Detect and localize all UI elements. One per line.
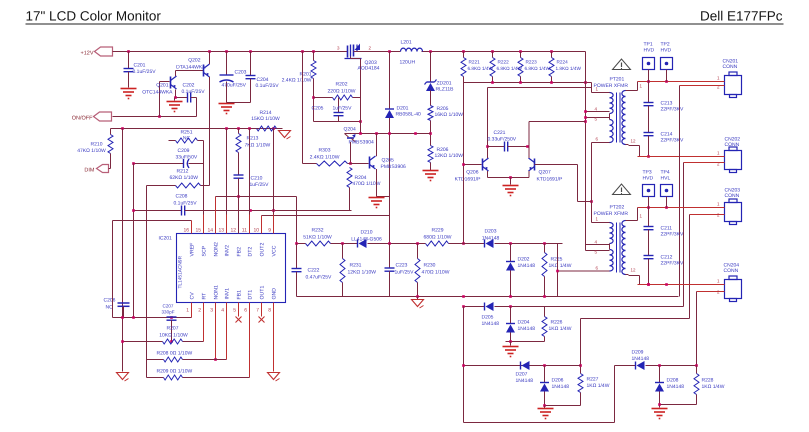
svg-text:1.8KΩ 1/4W: 1.8KΩ 1/4W xyxy=(556,66,582,71)
svg-text:R221: R221 xyxy=(469,60,481,65)
wire row365 right xyxy=(615,364,698,367)
wire Q202 collector xyxy=(209,77,211,186)
diode D203 xyxy=(482,229,500,249)
svg-text:Q207: Q207 xyxy=(539,170,551,176)
resistor R226 xyxy=(542,307,572,342)
resistor R208 xyxy=(147,351,227,363)
pin 2 xyxy=(680,85,725,90)
svg-text:22PF/3KV: 22PF/3KV xyxy=(661,232,684,238)
svg-text:VREF: VREF xyxy=(190,243,196,257)
svg-text:0.1uF/25V: 0.1uF/25V xyxy=(182,89,206,95)
ground xyxy=(503,186,519,196)
wire HV row3 xyxy=(638,206,724,209)
svg-text:KTD1691/P: KTD1691/P xyxy=(455,177,482,183)
svg-text:1N4148: 1N4148 xyxy=(482,236,500,242)
wire tap column xyxy=(585,52,587,251)
warning triangle xyxy=(594,59,631,89)
pin 1 xyxy=(707,151,725,157)
wire ON/OFF row xyxy=(113,115,197,118)
svg-text:1N4148: 1N4148 xyxy=(516,378,534,384)
svg-text:Q204: Q204 xyxy=(344,127,356,133)
connector DIM xyxy=(84,165,110,174)
ground arrow xyxy=(268,373,280,382)
transistor Q201 xyxy=(142,76,176,96)
wire PT202 pin6 xyxy=(558,266,607,272)
capacitor C205 xyxy=(312,98,353,122)
wire pin2 RT xyxy=(121,303,203,343)
svg-text:0.1uF/25V: 0.1uF/25V xyxy=(256,83,280,89)
wire pin3 NON1 xyxy=(214,303,217,361)
svg-text:INV2: INV2 xyxy=(225,245,231,257)
svg-text:0.33uF/250V: 0.33uF/250V xyxy=(488,136,517,142)
capacitor C223 xyxy=(385,244,415,297)
svg-text:R231: R231 xyxy=(350,263,362,269)
svg-text:0.47uF/25V: 0.47uF/25V xyxy=(306,275,333,281)
connector ON/OFF xyxy=(72,112,112,122)
svg-text:R224: R224 xyxy=(557,60,569,65)
svg-text:12KΩ 1/10W: 12KΩ 1/10W xyxy=(348,270,377,276)
resistor R225 xyxy=(542,244,572,297)
svg-text:22PF/3KV: 22PF/3KV xyxy=(661,107,684,113)
wire CN204 pin2 drop xyxy=(696,292,698,366)
resistor R213 xyxy=(236,129,270,153)
resistor R229 xyxy=(424,228,452,247)
connector CN203 xyxy=(725,188,742,225)
svg-text:680Ω 1/10W: 680Ω 1/10W xyxy=(424,235,452,241)
svg-text:1N4148: 1N4148 xyxy=(518,263,536,269)
svg-text:D210: D210 xyxy=(361,230,373,236)
resistor R251 xyxy=(169,130,204,164)
wire col B xyxy=(133,164,135,318)
ic IC201 box xyxy=(159,234,286,303)
svg-text:TL1451ACN9R: TL1451ACN9R xyxy=(178,255,184,288)
wire pin9 VCC xyxy=(273,129,275,234)
svg-text:7: 7 xyxy=(256,308,259,314)
pin 5 xyxy=(595,117,598,122)
capacitor C210 xyxy=(234,153,270,234)
resistor R303 xyxy=(310,148,348,167)
svg-text:1KΩ 1/4W: 1KΩ 1/4W xyxy=(549,263,572,269)
wire pin7 OUT1 nc xyxy=(259,303,265,323)
connector CN202 xyxy=(725,137,742,173)
wire R212 row xyxy=(147,169,210,189)
connector +12V xyxy=(81,47,113,57)
transformer PT202 core xyxy=(617,223,621,273)
svg-text:D202: D202 xyxy=(518,257,530,263)
wire +12V rail xyxy=(113,51,586,53)
transistor Q204 xyxy=(344,127,375,146)
svg-text:D209: D209 xyxy=(632,350,644,356)
wire C202 right xyxy=(191,98,197,117)
svg-text:NON1: NON1 xyxy=(214,285,220,300)
wire Q205 collector xyxy=(376,134,378,157)
capacitor C202 xyxy=(182,83,206,103)
ic IC201 pin labels xyxy=(183,228,277,314)
svg-text:10: 10 xyxy=(253,228,259,234)
wire C208 row xyxy=(132,194,351,216)
svg-text:51KΩ 1/10W: 51KΩ 1/10W xyxy=(303,235,332,241)
ground arrow xyxy=(117,373,129,382)
resistor R231 xyxy=(340,244,376,297)
svg-text:RT: RT xyxy=(202,292,208,300)
svg-text:16KΩ 1/10W: 16KΩ 1/10W xyxy=(435,112,464,118)
svg-text:OUT1: OUT1 xyxy=(260,286,266,300)
svg-text:OUT2: OUT2 xyxy=(260,243,266,257)
svg-text:1N4148: 1N4148 xyxy=(482,321,500,327)
wire row243 xyxy=(297,243,563,245)
wire row243 right drop xyxy=(556,244,559,297)
svg-text:1uF/25V: 1uF/25V xyxy=(333,106,353,112)
svg-text:RB058L-40: RB058L-40 xyxy=(396,112,422,118)
svg-text:INV1: INV1 xyxy=(225,288,231,300)
diode D202 xyxy=(506,244,535,297)
resistor R230 xyxy=(415,244,450,297)
pin 4 xyxy=(595,107,598,112)
svg-text:LL4148-G506: LL4148-G506 xyxy=(351,237,382,243)
transformer PT201 primary xyxy=(607,93,614,143)
wire bottom rail xyxy=(464,366,615,423)
svg-text:4: 4 xyxy=(221,308,224,314)
resistor R232 xyxy=(303,228,332,247)
wire D204 R226 bottoms xyxy=(506,340,545,345)
svg-text:R226: R226 xyxy=(551,320,563,326)
svg-text:RLZ11B: RLZ11B xyxy=(436,87,455,93)
svg-text:2.4KΩ 1/10W: 2.4KΩ 1/10W xyxy=(282,78,312,84)
svg-text:CONN: CONN xyxy=(725,193,740,199)
diode D201 xyxy=(385,52,421,244)
capacitor C212 xyxy=(644,255,684,286)
node row296 dots xyxy=(416,295,546,298)
svg-text:13: 13 xyxy=(218,228,224,234)
svg-text:8: 8 xyxy=(268,308,271,314)
wire row196 xyxy=(216,195,297,198)
svg-text:12: 12 xyxy=(631,268,637,273)
svg-text:ON/OFF: ON/OFF xyxy=(72,116,93,122)
resistor R207 xyxy=(159,326,188,345)
wire HV row1 xyxy=(638,80,724,83)
diode D209 xyxy=(632,350,650,371)
wire pin5 FB1 nc xyxy=(236,303,242,323)
svg-text:R223: R223 xyxy=(526,60,538,65)
svg-text:Q201: Q201 xyxy=(156,83,168,89)
ground arrow xyxy=(412,297,424,309)
svg-text:12: 12 xyxy=(631,139,637,144)
svg-text:C205: C205 xyxy=(312,106,324,112)
resistor R227 xyxy=(578,374,610,406)
svg-text:R210: R210 xyxy=(91,142,103,148)
svg-text:Q206: Q206 xyxy=(466,170,478,176)
svg-text:PT202: PT202 xyxy=(610,205,625,211)
pin 1 xyxy=(707,202,725,208)
transistor Q205 xyxy=(370,156,407,170)
wire Q207 base xyxy=(535,164,578,166)
svg-text:22PF/3KV: 22PF/3KV xyxy=(661,138,684,144)
label Q206 xyxy=(455,170,482,183)
capacitor C206 xyxy=(104,298,130,318)
wire pin14 NON2 xyxy=(215,197,217,234)
svg-text:47KΩ 1/10W: 47KΩ 1/10W xyxy=(77,148,106,154)
wire pin8 GND xyxy=(273,303,275,372)
svg-text:CONN: CONN xyxy=(724,268,739,274)
svg-text:DIM: DIM xyxy=(84,168,95,174)
wire left col A xyxy=(122,129,124,372)
resistor R201 xyxy=(282,52,316,122)
svg-text:NC: NC xyxy=(183,136,191,142)
svg-text:HVL: HVL xyxy=(661,176,671,182)
wire row133 xyxy=(345,132,431,135)
wire pin11 DT2 xyxy=(249,129,251,234)
wire C205 bottom row xyxy=(314,120,362,123)
wire C209 row xyxy=(132,148,203,168)
wire pin1 CV xyxy=(113,303,192,319)
svg-text:IC201: IC201 xyxy=(159,236,173,242)
svg-text:FB1: FB1 xyxy=(237,290,243,300)
ground xyxy=(167,98,183,112)
pin 1 xyxy=(596,87,599,92)
wire emitters xyxy=(488,171,530,185)
svg-text:2: 2 xyxy=(198,308,201,314)
ground arrow xyxy=(279,131,291,140)
svg-text:1uF/25V: 1uF/25V xyxy=(250,182,270,188)
svg-text:R227: R227 xyxy=(587,377,599,383)
capacitor C207 xyxy=(162,304,177,343)
svg-text:1KΩ 1/4W: 1KΩ 1/4W xyxy=(587,383,610,389)
wire Q201 collector xyxy=(176,71,204,77)
svg-text:1N4148: 1N4148 xyxy=(552,384,570,390)
transistor Q202 xyxy=(176,58,209,78)
transformer PT201 secondary xyxy=(622,91,629,145)
svg-text:R232: R232 xyxy=(312,228,324,234)
wire pin4 INV1 xyxy=(226,303,228,360)
svg-text:R303: R303 xyxy=(319,148,331,154)
ic IC201 name xyxy=(178,255,184,288)
svg-text:1N4148: 1N4148 xyxy=(518,326,536,332)
svg-text:C223: C223 xyxy=(396,263,408,269)
wire pin15 SCP xyxy=(203,164,205,234)
wire PT202 pin1 xyxy=(592,217,607,223)
wire D208 R228 bottoms xyxy=(658,403,696,407)
svg-text:470uF/25V: 470uF/25V xyxy=(222,83,247,89)
wire cross drive left xyxy=(462,83,465,245)
pin 3 xyxy=(337,46,340,51)
ground xyxy=(369,198,385,208)
svg-text:1KΩ 1/4W: 1KΩ 1/4W xyxy=(702,384,725,390)
resistor R204 xyxy=(347,168,381,211)
svg-text:GND: GND xyxy=(272,288,278,300)
diode D207 xyxy=(516,361,534,384)
svg-text:R228: R228 xyxy=(702,378,714,384)
svg-text:D208: D208 xyxy=(667,378,679,384)
svg-text:+12V: +12V xyxy=(81,51,94,57)
pin 1 xyxy=(707,279,725,285)
svg-text:2.4KΩ 1/10W: 2.4KΩ 1/10W xyxy=(310,155,340,161)
wire col main drop xyxy=(463,307,465,423)
resistor R223 xyxy=(518,52,550,83)
svg-text:1KΩ 1/4W: 1KΩ 1/4W xyxy=(549,326,572,332)
wire base rail left xyxy=(464,164,482,166)
ground xyxy=(423,171,439,181)
svg-text:120UH: 120UH xyxy=(400,60,416,66)
wire PT202 taps xyxy=(586,240,607,255)
wire Q201 base xyxy=(160,82,170,117)
svg-text:R225: R225 xyxy=(551,257,563,263)
resistor R222 xyxy=(490,52,522,83)
svg-text:16: 16 xyxy=(183,228,189,234)
svg-text:C208: C208 xyxy=(176,194,188,200)
svg-text:10KΩ 1/10W: 10KΩ 1/10W xyxy=(159,333,188,339)
wire row296 xyxy=(297,296,679,298)
svg-text:PT201: PT201 xyxy=(610,77,625,83)
svg-text:R222: R222 xyxy=(498,60,510,65)
wire PT201 sec top xyxy=(629,82,643,91)
svg-text:R208 0Ω 1/10W: R208 0Ω 1/10W xyxy=(157,351,193,357)
svg-text:3: 3 xyxy=(210,308,213,314)
svg-text:C201: C201 xyxy=(134,63,146,69)
svg-text:12: 12 xyxy=(230,228,236,234)
svg-text:R209 0Ω 1/10W: R209 0Ω 1/10W xyxy=(157,369,193,375)
wire R202 row xyxy=(314,97,361,99)
svg-text:C210: C210 xyxy=(251,176,263,182)
wire Q204 emitter xyxy=(349,142,352,165)
svg-text:DT2: DT2 xyxy=(248,247,254,257)
wire row365 left xyxy=(462,364,580,367)
svg-text:Q202: Q202 xyxy=(188,58,200,64)
svg-text:14: 14 xyxy=(207,228,213,234)
svg-text:22PF/3KV: 22PF/3KV xyxy=(661,261,684,267)
wire row306 xyxy=(462,305,683,308)
wire CN201 pin2 drop xyxy=(679,86,681,297)
resistor R209 xyxy=(147,369,250,381)
resistor R205 xyxy=(428,91,463,146)
svg-text:CONN: CONN xyxy=(723,64,738,70)
svg-text:L201: L201 xyxy=(401,40,412,46)
wire R303 row xyxy=(303,163,369,165)
svg-text:12KΩ 1/10W: 12KΩ 1/10W xyxy=(435,153,464,159)
transformer PT202 primary xyxy=(607,223,614,272)
ground xyxy=(219,104,235,114)
inductor L201 xyxy=(400,40,423,66)
diode D205 xyxy=(482,302,500,327)
svg-text:PMBS3906: PMBS3906 xyxy=(381,164,407,170)
wire row318 xyxy=(579,319,689,374)
svg-text:1N4148: 1N4148 xyxy=(667,384,685,390)
transformer PT202 secondary xyxy=(622,221,629,275)
svg-text:220Ω 1/10W: 220Ω 1/10W xyxy=(328,89,356,95)
wire HV row2 xyxy=(638,156,724,158)
wire pin16 VREF xyxy=(191,221,193,234)
wire R202 right drop xyxy=(360,59,362,134)
svg-text:D204: D204 xyxy=(518,320,530,326)
transformer PT201 core xyxy=(617,93,621,143)
svg-text:1: 1 xyxy=(186,308,189,314)
diode D206 xyxy=(540,366,569,406)
svg-text:15KΩ 1/10W: 15KΩ 1/10W xyxy=(251,116,280,122)
wire Q201 emitter xyxy=(174,90,187,99)
svg-text:9: 9 xyxy=(268,228,271,234)
connector CN201 xyxy=(723,59,742,98)
wire CN202 pin2 drop xyxy=(683,163,685,307)
wire pin6 DT1 xyxy=(249,303,251,378)
capacitor C211 xyxy=(644,208,684,256)
wire CN203 pin2 drop xyxy=(689,215,691,319)
svg-text:R212: R212 xyxy=(177,169,189,175)
svg-text:POWER XFMR: POWER XFMR xyxy=(594,211,629,217)
test point TP1 xyxy=(643,42,655,82)
title xyxy=(26,9,784,25)
svg-text:1N4148: 1N4148 xyxy=(632,356,650,362)
svg-text:C203: C203 xyxy=(235,70,247,76)
wire row215 xyxy=(262,216,390,244)
test point TP4 xyxy=(661,170,673,208)
wire HV row4 xyxy=(638,283,724,286)
capacitor C221 xyxy=(488,130,529,152)
resistor R202 xyxy=(328,82,356,101)
svg-text:C206: C206 xyxy=(104,298,116,304)
svg-text:6: 6 xyxy=(244,308,247,314)
svg-text:62KΩ 1/10W: 62KΩ 1/10W xyxy=(170,175,199,181)
wire Q202 emitter xyxy=(209,52,211,65)
wire R214 row xyxy=(111,127,283,130)
svg-text:SCP: SCP xyxy=(202,245,208,256)
wire cross drive right xyxy=(578,165,593,203)
pin 2 xyxy=(697,290,725,295)
diode D210 xyxy=(351,230,382,249)
svg-text:6.8KΩ 1/4W: 6.8KΩ 1/4W xyxy=(525,66,551,71)
capacitor C213 xyxy=(644,82,684,133)
ground xyxy=(652,409,668,419)
wire bias bus xyxy=(464,81,592,84)
svg-text:R202: R202 xyxy=(336,82,348,88)
resistor R206 xyxy=(428,146,463,171)
wire PT202 sec top xyxy=(629,208,643,221)
wire row196-link xyxy=(296,197,298,244)
capacitor C222 xyxy=(292,244,333,297)
svg-text:NC: NC xyxy=(106,305,114,311)
wire PT202 pin12 xyxy=(629,268,640,285)
resistor R228 xyxy=(694,366,725,405)
svg-text:AOD4184: AOD4184 xyxy=(358,66,380,72)
svg-text:D207: D207 xyxy=(516,372,528,378)
svg-text:CV: CV xyxy=(190,292,196,300)
svg-text:17" LCD Color Monitor: 17" LCD Color Monitor xyxy=(26,9,162,24)
connector CN204 xyxy=(724,263,742,302)
warning triangle xyxy=(594,184,631,217)
svg-text:D206: D206 xyxy=(552,378,564,384)
wire D206 R227 bottoms xyxy=(543,404,580,408)
svg-text:DTA144WKA: DTA144WKA xyxy=(176,65,206,71)
svg-text:R230: R230 xyxy=(424,263,436,269)
svg-text:R213: R213 xyxy=(247,136,259,142)
svg-text:7KΩ 1/10W: 7KΩ 1/10W xyxy=(245,143,271,149)
pin 1 xyxy=(707,76,725,82)
svg-text:PMBS3904: PMBS3904 xyxy=(349,140,375,146)
test point TP3 xyxy=(643,170,655,208)
svg-text:Q205: Q205 xyxy=(382,158,394,164)
transistor Q207 xyxy=(529,158,535,171)
svg-text:330pF: 330pF xyxy=(162,310,175,315)
capacitor C201 xyxy=(124,52,157,88)
svg-text:HVD: HVD xyxy=(644,48,655,54)
ground xyxy=(538,409,554,419)
svg-text:33uF/50V: 33uF/50V xyxy=(176,155,198,161)
capacitor C204 xyxy=(227,52,280,103)
node rail junctions xyxy=(127,50,553,53)
wire Q207 collector xyxy=(529,122,586,159)
svg-text:R229: R229 xyxy=(432,228,444,234)
label Q207 xyxy=(537,170,564,183)
svg-text:NON2: NON2 xyxy=(214,242,220,257)
wire PT201 pin1 riser xyxy=(592,83,607,93)
